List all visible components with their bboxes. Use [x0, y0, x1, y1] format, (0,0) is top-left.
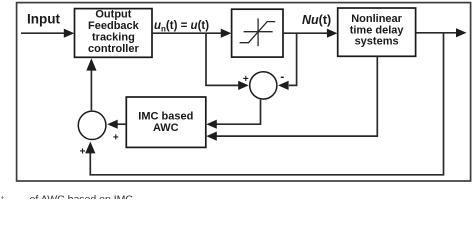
svg-text:of AWC based on IMC: of AWC based on IMC — [30, 194, 134, 200]
svg-text:IMC based: IMC based — [138, 111, 193, 123]
wire plant bottom tap to AWC lower input — [206, 56, 377, 140]
block: Output Feedback tracking controller — [75, 8, 153, 57]
wire S2 output up into controller — [86, 58, 96, 110]
svg-text:+: + — [243, 74, 249, 85]
wire junction drop to minus input of sum S1 — [278, 33, 297, 90]
svg-text:Output: Output — [95, 8, 131, 20]
block: IMC based AWC — [126, 97, 206, 147]
block: saturation nonlinearity — [232, 9, 283, 57]
svg-text:time delay: time delay — [350, 24, 405, 36]
svg-text:Input: Input — [27, 12, 60, 27]
svg-text:Nu(t): Nu(t) — [302, 13, 331, 27]
wire S1 output to AWC upper input — [206, 100, 260, 129]
svg-text:AWC: AWC — [153, 122, 179, 134]
svg-text:t: t — [1, 194, 4, 200]
wire input arrow into controller — [21, 29, 74, 38]
svg-text:-: - — [280, 70, 284, 84]
wire junction drop to plus input of sum S1 — [206, 33, 249, 90]
summing junction S1 — [250, 72, 277, 99]
border frame of figure — [17, 3, 471, 181]
wire controller to saturation — [152, 29, 231, 38]
wire system output arrow — [416, 28, 467, 37]
svg-text:+: + — [113, 133, 119, 144]
svg-text:systems: systems — [355, 36, 399, 48]
summing junction S2 — [78, 111, 106, 139]
svg-text:Feedback: Feedback — [88, 20, 140, 32]
svg-text:controller: controller — [88, 43, 139, 55]
wire AWC output to sum S2 — [107, 120, 126, 129]
block: Nonlinear time delay systems — [338, 8, 416, 56]
svg-text:Nonlinear: Nonlinear — [351, 13, 402, 25]
svg-text:tracking: tracking — [92, 31, 135, 43]
wire output feedback down and left to sum S2 bottom — [85, 33, 443, 175]
wire saturation to nonlinear system — [283, 29, 337, 38]
svg-text:+: + — [80, 147, 86, 158]
